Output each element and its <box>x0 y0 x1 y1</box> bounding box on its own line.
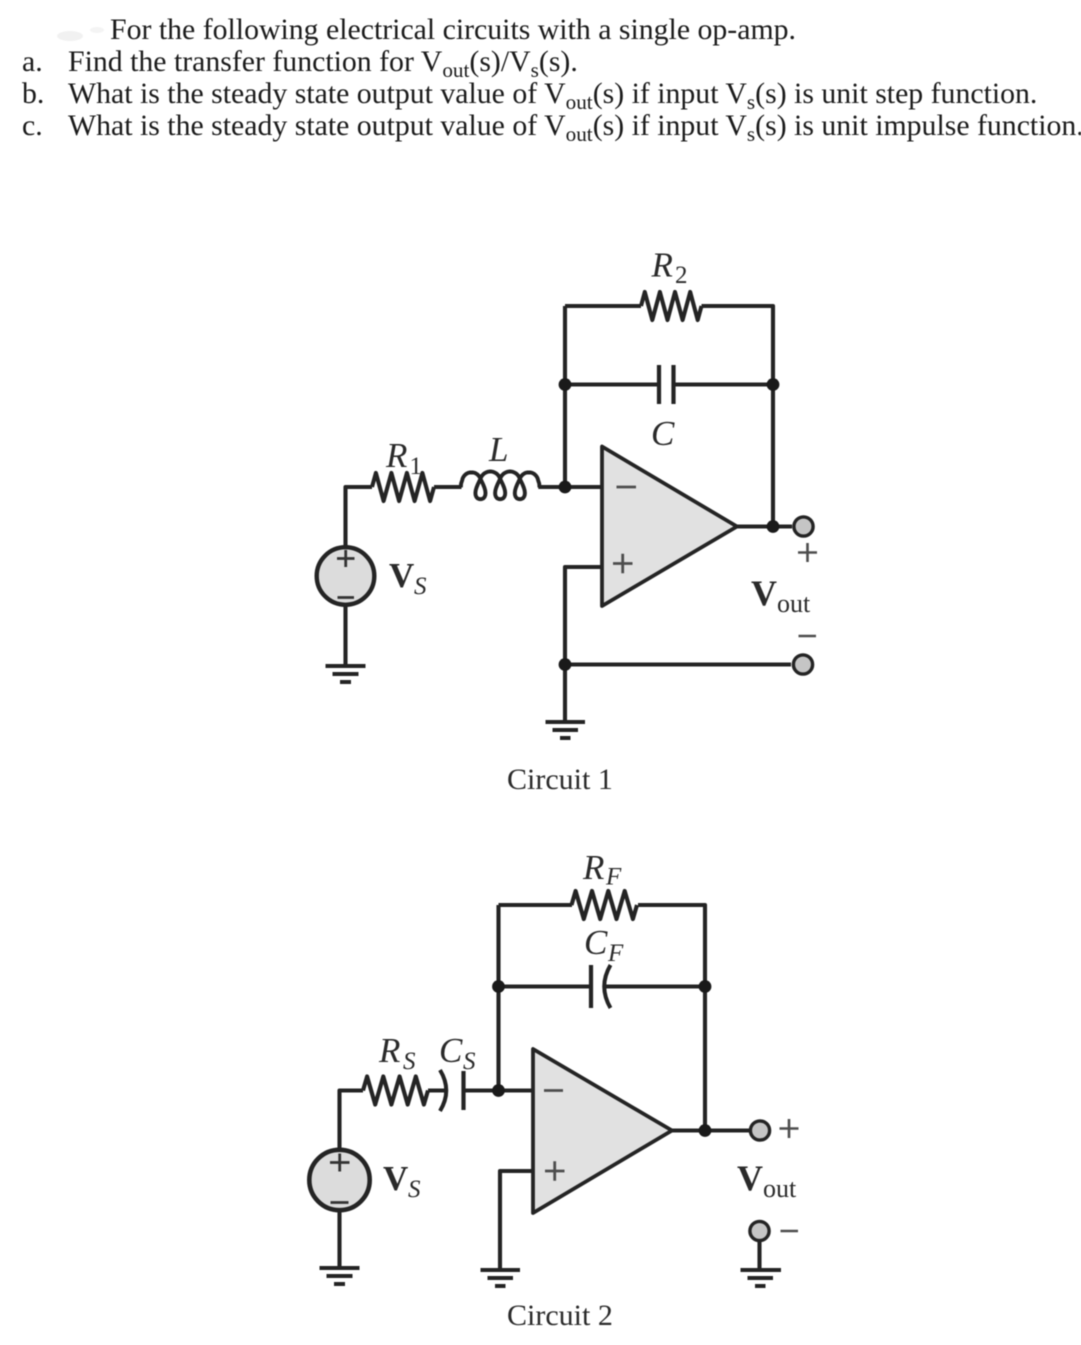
resistor RF <box>572 891 638 919</box>
svg-text:S: S <box>463 1048 476 1075</box>
wire: non-inverting input to ground stem <box>565 567 602 722</box>
svg-text:F: F <box>605 864 622 891</box>
wire: R2 to right vertical, down to output node <box>702 306 774 526</box>
voltage source VS polarity marks <box>337 550 355 598</box>
wire: negative terminal 2 to ground <box>757 1241 761 1270</box>
wire: CS to op-amp inverting input <box>464 1088 534 1092</box>
op-amp U2 inverting pin mark <box>544 1089 563 1092</box>
capacitor C left wire <box>565 382 659 386</box>
wire: op-amp 2 output <box>672 1128 749 1132</box>
wire: RF to right vertical, down to output node <box>638 905 705 1130</box>
wire: top feedback left segment <box>565 304 641 308</box>
wire: top feedback left segment <box>499 903 573 907</box>
wire: L to op-amp inverting input <box>538 485 602 489</box>
voltage source VS <box>317 547 375 605</box>
resistor R1 <box>372 473 434 501</box>
ground (source VS) <box>326 666 366 682</box>
terminal: Vout2 negative <box>750 1221 769 1240</box>
op-amp U1 inverting pin mark <box>617 486 637 489</box>
svg-text:out: out <box>777 589 811 618</box>
resistor R2 <box>641 292 702 320</box>
svg-text:2: 2 <box>675 262 688 289</box>
terminal: Vout2 positive <box>750 1121 769 1140</box>
svg-text:V: V <box>737 1158 763 1198</box>
svg-text:V: V <box>751 573 777 613</box>
wire: feedback left vertical riser <box>563 306 567 487</box>
ground (op-amp 2 non-inverting input) <box>481 1270 521 1286</box>
wire: non-inverting input to ground stem <box>500 1171 533 1270</box>
wire: bottom return to negative terminal <box>565 662 791 666</box>
ground (source VS2) <box>320 1268 360 1284</box>
svg-text:F: F <box>607 940 624 967</box>
problem statement text <box>110 13 796 47</box>
svg-text:S: S <box>403 1048 416 1075</box>
svg-text:V: V <box>389 556 414 595</box>
capacitor CF curved plate <box>604 965 610 1008</box>
terminal: Vout negative <box>793 655 812 674</box>
wire: source VS top to resistor R1 <box>346 487 373 547</box>
label: - at negative terminal 2 <box>781 1230 799 1233</box>
resistor RS <box>363 1077 428 1105</box>
capacitor CS curved plate <box>440 1070 446 1111</box>
node: CF right junction <box>699 980 712 993</box>
faint scan smudges <box>57 27 104 41</box>
svg-text:R: R <box>378 1031 400 1070</box>
label: + at output terminal 2 <box>780 1119 799 1138</box>
node: output junction 2 <box>699 1124 712 1137</box>
capacitor C right wire <box>674 382 774 386</box>
op-amp U1 body <box>602 447 737 607</box>
node: capacitor left junction <box>559 378 572 391</box>
terminal: Vout positive <box>794 517 813 536</box>
ground (op-amp non-inverting input) <box>546 722 586 738</box>
op-amp U2 non-inverting pin mark <box>545 1161 565 1181</box>
wire: source VS to ground <box>343 605 347 666</box>
svg-text:out: out <box>763 1174 797 1203</box>
svg-text:R: R <box>582 848 604 887</box>
voltage source VS2 polarity marks <box>330 1154 350 1203</box>
svg-text:L: L <box>488 430 508 469</box>
ground (output negative 2) <box>741 1270 782 1286</box>
node: output junction <box>767 520 780 533</box>
svg-text:Circuit 1: Circuit 1 <box>507 763 613 796</box>
svg-text:C: C <box>439 1031 463 1070</box>
svg-text:Circuit 2: Circuit 2 <box>507 1299 613 1332</box>
svg-text:S: S <box>408 1176 421 1203</box>
wire: R1 to inductor L <box>434 485 462 489</box>
node: CF left junction <box>492 980 505 993</box>
svg-text:C: C <box>584 923 608 962</box>
capacitor CF right wire <box>605 984 706 988</box>
capacitor CS straight plate <box>461 1071 465 1110</box>
wire: source VS2 top to resistor RS <box>340 1091 364 1151</box>
wire: RS to capacitor CS <box>428 1088 446 1092</box>
svg-text:R: R <box>651 246 673 285</box>
op-amp U2 body <box>533 1049 672 1213</box>
label: - at negative terminal <box>799 635 817 638</box>
node: inverting input junction 2 <box>492 1084 505 1097</box>
node: inverting input junction <box>559 481 572 494</box>
node: bottom return junction <box>559 658 572 671</box>
voltage source VS2 <box>309 1150 369 1210</box>
svg-text:S: S <box>414 573 427 600</box>
wire: op-amp output <box>737 524 792 528</box>
inductor L <box>461 472 540 500</box>
svg-text:V: V <box>383 1159 408 1198</box>
capacitor CF straight plate <box>589 965 593 1008</box>
svg-text:1: 1 <box>410 453 423 480</box>
svg-text:R: R <box>385 436 407 475</box>
capacitor CF left wire <box>499 984 592 988</box>
capacitor C plates <box>659 365 674 404</box>
wire: feedback left vertical riser <box>496 905 500 1091</box>
label: + at output terminal <box>798 543 817 562</box>
op-amp U1 non-inverting pin mark <box>613 554 633 574</box>
svg-text:C: C <box>651 414 675 453</box>
node: capacitor right junction <box>767 378 780 391</box>
wire: source VS2 to ground <box>337 1209 341 1268</box>
